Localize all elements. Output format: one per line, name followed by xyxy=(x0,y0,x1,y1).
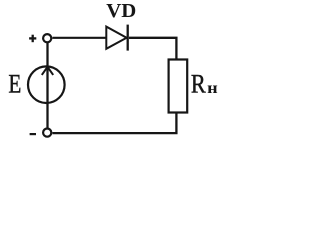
svg-text:R: R xyxy=(191,70,206,99)
resistor Rн body xyxy=(169,60,188,113)
EMF source E circle xyxy=(28,66,65,103)
terminal T1 (+) xyxy=(43,34,51,42)
wire: terminal T1 to diode anode xyxy=(52,37,106,39)
svg-text:E: E xyxy=(8,70,21,99)
wire: resistor bottom to bottom-right corner to terminal T2 xyxy=(52,113,176,134)
diode VD triangle (anode) xyxy=(106,27,126,49)
svg-text:н: н xyxy=(207,79,218,96)
terminal T2 (−) xyxy=(43,129,51,137)
wire: terminal T1 through source to terminal T2 xyxy=(46,42,48,128)
plus polarity label xyxy=(29,35,36,43)
wire: diode cathode to top-right corner down to resistor top xyxy=(129,38,176,60)
source arrow head (EMF direction up) xyxy=(42,67,53,75)
svg-text:VD: VD xyxy=(106,1,136,22)
diode VD cathode bar xyxy=(127,25,129,51)
minus polarity label xyxy=(30,133,36,135)
